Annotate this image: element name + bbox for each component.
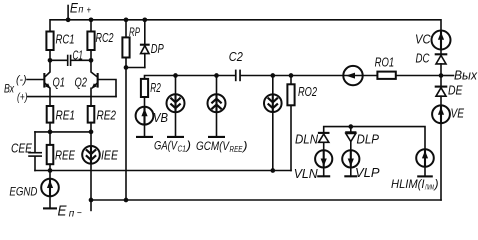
- svg-text:RC2: RC2: [96, 30, 115, 45]
- svg-text:RP: RP: [129, 25, 140, 39]
- svg-text:IEE: IEE: [101, 148, 118, 163]
- capacitor C2: [229, 49, 244, 81]
- svg-text:DLP: DLP: [357, 132, 380, 147]
- svg-text:VE: VE: [451, 106, 465, 121]
- svg-text:DP: DP: [151, 41, 164, 56]
- svg-text:EGND: EGND: [9, 185, 37, 199]
- svg-text:−: −: [77, 208, 82, 217]
- voltage source VLP: [342, 150, 380, 180]
- svg-text:HLIM(I: HLIM(I: [391, 177, 425, 191]
- resistor RC1: [46, 32, 74, 61]
- diode DLN: [295, 132, 330, 151]
- svg-text:REE: REE: [230, 144, 243, 154]
- svg-text:REE: REE: [55, 148, 75, 163]
- svg-text:DLN: DLN: [295, 132, 319, 147]
- current source HLIM: [391, 149, 439, 191]
- resistor RE1: [47, 106, 75, 132]
- svg-text:Вх: Вх: [4, 82, 15, 96]
- voltage source VLN: [294, 150, 333, 181]
- current source GCM: [196, 73, 248, 154]
- svg-text:RO1: RO1: [375, 55, 395, 70]
- svg-text:CEE: CEE: [11, 142, 33, 156]
- svg-text:Вых: Вых: [454, 69, 478, 83]
- svg-text:C2: C2: [229, 49, 244, 64]
- svg-text:VC: VC: [415, 32, 431, 47]
- wire interstage bus: [145, 76, 442, 79]
- svg-text:Q1: Q1: [53, 75, 66, 90]
- svg-text:RE1: RE1: [56, 108, 76, 123]
- voltage source EGND: [9, 171, 58, 209]
- svg-text:VB: VB: [153, 110, 168, 125]
- svg-text:VLN: VLN: [294, 166, 319, 181]
- node En- terminal tick: [58, 200, 92, 220]
- resistor RP: [122, 17, 140, 67]
- diode DP: [140, 17, 164, 67]
- svg-text:(+): (+): [17, 92, 28, 104]
- transistor Q2: [75, 60, 99, 106]
- current source IEE: [82, 123, 118, 200]
- svg-text:ЛИМ: ЛИМ: [424, 183, 434, 192]
- svg-text:Q2: Q2: [75, 75, 88, 90]
- wire (+) input line: [28, 96, 117, 98]
- svg-text:DC: DC: [416, 51, 430, 66]
- svg-text:GCM(V: GCM(V: [196, 139, 230, 153]
- resistor REE: [47, 132, 76, 171]
- diode DC: [416, 51, 448, 76]
- wire common emitter node line: [35, 130, 93, 135]
- wire Q2 base loop: [99, 80, 116, 97]
- current source GA: [154, 73, 191, 153]
- node En+ terminal tick: [66, 1, 91, 22]
- svg-text:RC1: RC1: [56, 32, 75, 47]
- svg-text:R2: R2: [150, 80, 161, 95]
- resistor RO1: [375, 55, 396, 79]
- wire bottom negative supply rail: [89, 198, 441, 203]
- svg-text:GA(V: GA(V: [154, 139, 178, 153]
- svg-text:E: E: [58, 203, 68, 218]
- svg-text:DE: DE: [448, 83, 463, 98]
- resistor RE2: [88, 106, 117, 123]
- wire RP-DP junction down to negative rail: [124, 65, 145, 200]
- resistor RC2: [87, 17, 114, 60]
- node Bx input labels: [4, 74, 28, 104]
- current source GB: [264, 73, 282, 170]
- svg-text:+: +: [87, 5, 92, 16]
- transistor Q1: [27, 60, 65, 106]
- svg-text:VLP: VLP: [355, 165, 380, 180]
- node output Вых: [439, 69, 478, 83]
- svg-text:(-): (-): [16, 74, 27, 86]
- voltage source VE: [432, 105, 464, 200]
- svg-text:п: п: [69, 208, 75, 217]
- svg-text:RO2: RO2: [298, 84, 318, 99]
- svg-text:п: п: [78, 5, 83, 16]
- capacitor CEE: [11, 132, 42, 171]
- svg-text:RE2: RE2: [97, 108, 117, 123]
- capacitor C1: [48, 49, 94, 67]
- resistor R2: [141, 79, 161, 97]
- resistor RO2: [287, 73, 317, 170]
- wire limiter block top line: [324, 124, 425, 149]
- diode DLP: [345, 127, 379, 151]
- diode DE: [435, 76, 463, 106]
- voltage source inline E: [343, 66, 362, 85]
- svg-text:C1: C1: [73, 49, 84, 63]
- svg-text:C1: C1: [178, 144, 187, 154]
- voltage source VC: [415, 31, 451, 54]
- voltage source VB: [136, 97, 169, 137]
- wire ground reference line: [35, 168, 291, 173]
- wire top positive supply rail: [50, 20, 441, 32]
